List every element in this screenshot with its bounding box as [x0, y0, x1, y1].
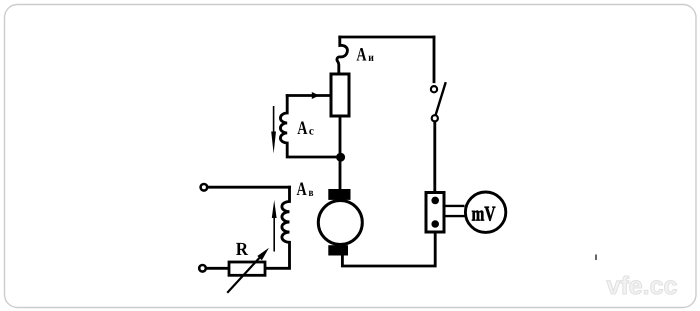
svg-text:A: A [297, 179, 307, 200]
wire block bottom to motor [342, 224, 435, 266]
current arrow up (left of Aв) [272, 200, 277, 252]
millivoltmeter mV [465, 192, 505, 232]
wire terminal to R [206, 267, 229, 270]
terminal bottom-left [199, 265, 206, 272]
switch contact bottom circle [432, 115, 438, 121]
motor brush bottom [328, 245, 348, 255]
wire Ac loop top [287, 94, 331, 97]
block contact dot top [431, 197, 439, 205]
svg-text:R: R [236, 240, 249, 260]
wire Aв top [208, 186, 290, 189]
wire right vertical upper [433, 37, 436, 82]
variable arrow diagonal of R [228, 258, 260, 292]
svg-text:vfe.cc: vfe.cc [607, 272, 678, 300]
coil Ac left side [280, 96, 340, 158]
resistor Aи [331, 74, 349, 116]
junction node dot [336, 153, 345, 162]
resistor R [229, 262, 265, 275]
wire top horizontal [340, 36, 434, 39]
motor circle M [318, 201, 362, 245]
motor brush top [328, 189, 350, 200]
svg-text:A: A [356, 45, 366, 66]
wire switch to block [433, 122, 436, 200]
svg-text:в: в [309, 187, 314, 199]
terminal block with two contacts [426, 193, 444, 233]
coil Aв [265, 187, 290, 268]
svg-text:mV: mV [472, 201, 496, 225]
svg-text:c: c [309, 125, 314, 137]
winding Aи one-turn loop symbol [337, 37, 347, 74]
arrow head on Ac top wire [312, 92, 320, 99]
wire resistor to motor [339, 116, 342, 189]
current arrow down (left of Ac) [271, 106, 276, 154]
switch blade [436, 83, 445, 113]
svg-text:и: и [368, 52, 374, 64]
svg-text:A: A [297, 118, 307, 139]
terminal top-left [201, 184, 208, 191]
connector fork to mV [444, 206, 465, 216]
arrow head of R diagonal [257, 248, 269, 260]
switch contact top circle [431, 86, 437, 92]
block contact dot bottom [431, 220, 439, 228]
